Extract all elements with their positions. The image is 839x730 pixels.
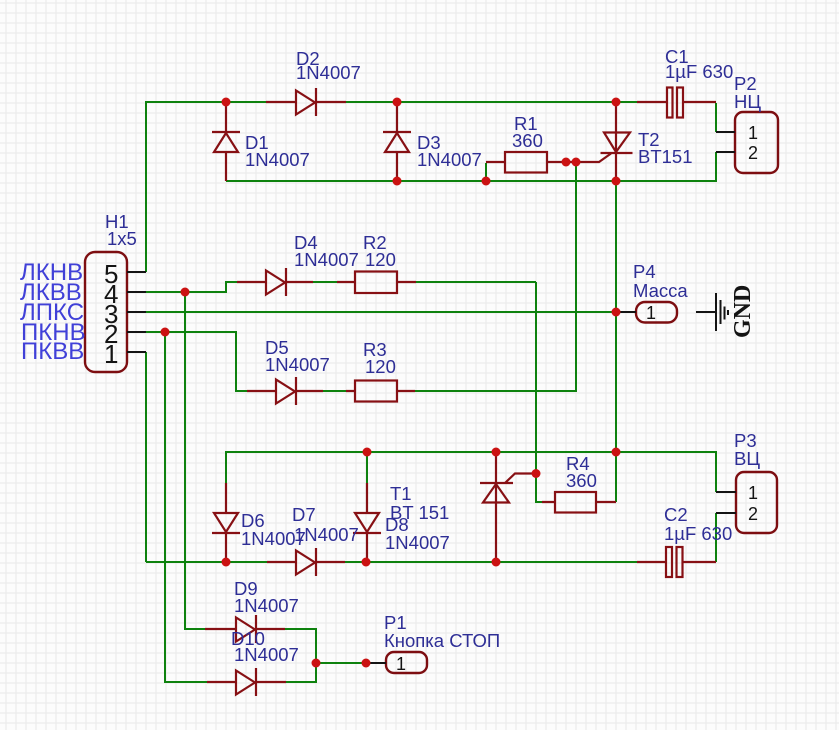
svg-text:BT151: BT151 <box>638 146 693 167</box>
svg-text:1: 1 <box>396 654 406 674</box>
diode D9 (horizontal, cathode right) <box>205 615 285 643</box>
svg-text:120: 120 <box>365 356 396 377</box>
svg-text:2: 2 <box>748 504 758 524</box>
svg-text:1: 1 <box>748 123 758 143</box>
svg-text:360: 360 <box>512 130 543 151</box>
wire net ЛКВВ: pin4 jog to D4 <box>146 282 237 292</box>
pin stub H1 pin3 <box>127 311 146 313</box>
svg-text:GND: GND <box>730 285 756 338</box>
svg-text:ВЦ: ВЦ <box>734 448 760 469</box>
wire D5-R3 link <box>323 390 346 392</box>
svg-text:1µF 630: 1µF 630 <box>665 61 733 82</box>
svg-text:ПКВВ: ПКВВ <box>21 338 84 365</box>
capacitor C2 <box>637 547 716 577</box>
junction T2 anode / C1 <box>612 98 621 107</box>
pin stub P3 pin1 <box>716 491 736 493</box>
svg-text:1N4007: 1N4007 <box>294 249 359 270</box>
svg-text:1: 1 <box>104 339 118 369</box>
svg-text:1N4007: 1N4007 <box>265 354 330 375</box>
diode D6 (vertical, cathode down) <box>212 483 240 562</box>
junction T2 gate b <box>572 158 581 167</box>
svg-text:1N4007: 1N4007 <box>385 532 450 553</box>
thyristor T1 (anode down, gate right) <box>480 452 536 562</box>
junction T2 cathode <box>612 177 621 186</box>
capacitor C1 <box>637 88 716 118</box>
wire R2 output run <box>416 281 536 283</box>
resistor R2 <box>337 272 416 294</box>
pin stub P2 pin2 <box>716 151 735 153</box>
svg-text:1x5: 1x5 <box>107 228 137 249</box>
junction P1 node a <box>312 659 321 668</box>
junction pin4 branch <box>181 288 190 297</box>
wire T1 gate / R4 feed riser <box>536 282 542 502</box>
junction R4 riser top <box>612 448 621 457</box>
wire net ЛПКС: pin3 to P4 <box>146 311 616 313</box>
wire P1 link <box>316 662 366 664</box>
wire R4 output riser <box>615 452 617 502</box>
junction T1 anode <box>492 448 501 457</box>
junction pin2 branch <box>161 328 170 337</box>
connector P1 body <box>386 652 427 673</box>
wire bottom rail right (D7 cathode to C2, riser to P3 pin2) <box>345 513 716 562</box>
wire bottom section top rail <box>226 452 716 492</box>
diode D2 (horizontal, cathode right) <box>266 88 346 116</box>
diode D1 (vertical, cathode up) <box>212 103 240 181</box>
thyristor T2 (anode up, gate left) <box>547 103 633 181</box>
svg-text:1: 1 <box>748 483 758 503</box>
resistor R3 <box>346 381 415 402</box>
wire D4-R2 link <box>313 281 337 283</box>
pin stub P4 pin1 <box>616 311 636 313</box>
wire top loop bottom rail to P2 pin2 <box>226 152 716 181</box>
svg-text:1µF 630: 1µF 630 <box>664 523 732 544</box>
wire pin2 branch down to D10 <box>165 332 207 682</box>
ground symbol GND <box>696 293 728 331</box>
svg-text:Кнопка СТОП: Кнопка СТОП <box>384 630 500 651</box>
svg-text:НЦ: НЦ <box>734 91 761 112</box>
pin stub H1 pin2 <box>127 331 146 333</box>
wire net ЛКНВ: H1 pin5 riser to top rail <box>146 102 266 272</box>
junction R1 branch <box>482 177 491 186</box>
wire pin4 branch down to D9 <box>185 292 205 629</box>
svg-text:1N4007: 1N4007 <box>241 528 306 549</box>
wire net ПКВВ: pin1 down to bottom rail <box>145 352 147 562</box>
wire top rail (D2 cathode to C1) <box>346 101 637 103</box>
wire D10 output corner to P1 node <box>286 663 316 682</box>
wire P2 pin1 riser <box>715 103 717 132</box>
svg-text:360: 360 <box>566 470 597 491</box>
svg-text:T1: T1 <box>390 483 412 504</box>
svg-text:1N4007: 1N4007 <box>245 149 310 170</box>
diode D5 (horizontal, cathode right) <box>247 377 323 405</box>
junction D3 top <box>393 98 402 107</box>
diode D10 (horizontal, cathode right) <box>207 668 286 696</box>
wire D8 top lead <box>366 452 368 483</box>
junction D1 top <box>222 98 231 107</box>
pin stub H1 pin5 <box>127 271 146 273</box>
svg-text:120: 120 <box>365 249 396 270</box>
svg-text:Масса: Масса <box>633 280 688 301</box>
junction D8 bottom <box>362 558 371 567</box>
connector P3 body <box>736 472 777 533</box>
junction D3 bottom <box>393 177 402 186</box>
junction D6 bottom <box>222 558 231 567</box>
junction P4 node <box>612 308 621 317</box>
svg-text:1N4007: 1N4007 <box>417 149 482 170</box>
junction T2 gate a <box>562 158 571 167</box>
diode D8 (vertical, cathode down) <box>353 483 381 562</box>
pin stub H1 pin4 <box>127 291 146 293</box>
resistor R1 <box>486 152 547 173</box>
diode D4 (horizontal, cathode right) <box>237 268 313 296</box>
diode D7 (horizontal, cathode right) <box>267 548 345 576</box>
diode D3 (vertical, cathode up) <box>383 103 411 181</box>
junction T1 bottom <box>492 558 501 567</box>
connector P2 body <box>735 112 778 173</box>
connector P4 body <box>636 302 677 323</box>
wire net ПКНВ: pin2 run to D5 <box>146 332 247 391</box>
wire bottom rail left (to D7 anode) <box>146 561 267 563</box>
pin stub H1 pin1 <box>127 351 146 353</box>
wire D9 output corner to P1 node <box>285 629 316 663</box>
junction D8 top <box>363 448 372 457</box>
pin stub P2 pin1 <box>716 131 735 133</box>
svg-text:1N4007: 1N4007 <box>234 644 299 665</box>
svg-text:1N4007: 1N4007 <box>296 62 361 83</box>
wire Масса vertical (T2 cathode rail to bottom section) <box>615 181 617 452</box>
svg-text:2: 2 <box>748 143 758 163</box>
svg-text:D7: D7 <box>292 504 316 525</box>
svg-text:1: 1 <box>646 303 656 323</box>
junction P1 node b <box>362 659 371 668</box>
svg-text:1N4007: 1N4007 <box>234 595 299 616</box>
resistor R4 <box>542 492 616 513</box>
wire R1 branch from bottom rail <box>485 163 487 181</box>
svg-text:C2: C2 <box>664 504 688 525</box>
svg-text:P4: P4 <box>633 261 656 282</box>
pin stub P1 pin1 <box>366 662 386 664</box>
pin stub P3 pin2 <box>716 512 736 514</box>
wire R3 output to T2 gate riser <box>415 162 576 391</box>
junction T1 gate <box>532 469 541 478</box>
connector H1 body <box>85 252 127 372</box>
